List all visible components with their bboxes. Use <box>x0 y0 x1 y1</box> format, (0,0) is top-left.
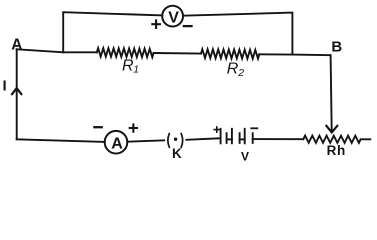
svg-text:V: V <box>241 150 249 164</box>
svg-text:K: K <box>172 146 182 161</box>
svg-text:B: B <box>331 39 342 56</box>
svg-text:1: 1 <box>133 63 139 75</box>
svg-text:A: A <box>11 37 22 54</box>
svg-text:V: V <box>168 10 179 27</box>
svg-text:R: R <box>122 58 134 75</box>
svg-text:A: A <box>111 136 123 153</box>
svg-text:Rh: Rh <box>327 143 346 158</box>
svg-text:2: 2 <box>237 67 244 79</box>
svg-text:I: I <box>3 77 7 94</box>
svg-text:R: R <box>227 60 239 77</box>
